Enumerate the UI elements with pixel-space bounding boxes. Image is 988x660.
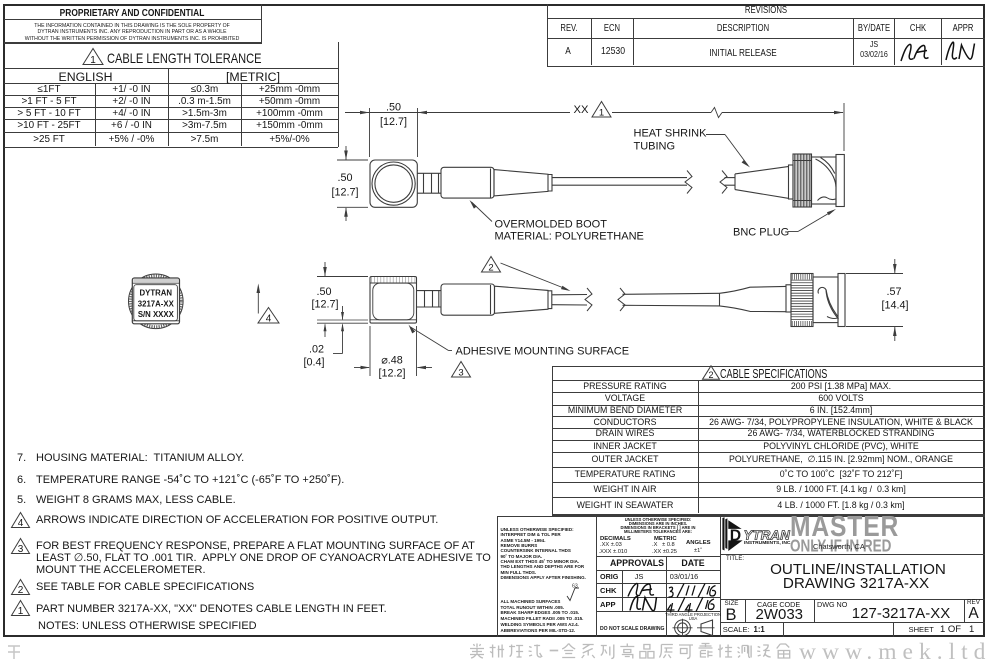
revisions table xyxy=(547,4,548,66)
watermark partial char bottom-left xyxy=(8,646,20,659)
triangle 4 ref with up arrow xyxy=(257,289,259,314)
BNC flange xyxy=(836,155,844,207)
face view hatched circle body xyxy=(129,274,184,329)
svg-text:[12.7]: [12.7] xyxy=(380,116,407,128)
svg-text:HEAT SHRINK: HEAT SHRINK xyxy=(634,128,708,140)
svg-text:XX: XX xyxy=(574,104,589,116)
dim .50 side xyxy=(317,276,368,278)
svg-text:1: 1 xyxy=(599,108,604,119)
svg-text:63: 63 xyxy=(572,584,578,590)
svg-text:.50: .50 xyxy=(316,286,331,298)
boot taper 2 xyxy=(495,286,549,313)
MASTER stamp xyxy=(790,510,899,556)
connector face circle xyxy=(372,162,415,205)
svg-text:3: 3 xyxy=(18,544,24,555)
triangle note 1 xyxy=(12,601,30,618)
svg-text:ADHESIVE MOUNTING SURFACE: ADHESIVE MOUNTING SURFACE xyxy=(456,346,630,358)
svg-text:TUBING: TUBING xyxy=(634,141,676,153)
svg-text:3217A-XX: 3217A-XX xyxy=(138,299,175,308)
svg-text:1: 1 xyxy=(18,606,24,617)
cable break 2 xyxy=(585,288,592,311)
svg-text:.50: .50 xyxy=(386,101,401,113)
dim .57 xyxy=(846,273,903,275)
dim .02 xyxy=(342,306,344,320)
svg-text:Chatsworth, CA: Chatsworth, CA xyxy=(813,542,865,551)
BNC strain relief xyxy=(735,166,789,198)
triangle note 3 xyxy=(12,539,30,556)
sensor square side view (drawing 2) xyxy=(370,277,417,324)
third angle projection symbol xyxy=(675,620,691,636)
svg-text:2: 2 xyxy=(18,585,24,596)
triangle note 2 xyxy=(12,580,30,597)
triangle note 4 xyxy=(12,513,30,530)
dim XX and .50 top: extension lines xyxy=(369,108,371,157)
svg-text:4: 4 xyxy=(266,314,272,325)
cable 2 first segment xyxy=(552,294,587,296)
triangle note 1 (cable length tolerance) xyxy=(83,49,103,67)
svg-text:[0.4]: [0.4] xyxy=(303,357,324,369)
cable 2 second segment xyxy=(623,293,720,294)
notes text xyxy=(17,452,26,464)
svg-text:DYTRAN: DYTRAN xyxy=(140,288,173,297)
triangle 3 ref xyxy=(452,362,471,379)
svg-text:MATERIAL: POLYURETHANE: MATERIAL: POLYURETHANE xyxy=(495,231,644,243)
back ring 2 xyxy=(786,285,791,312)
svg-text:[12.2]: [12.2] xyxy=(378,368,405,380)
svg-text:3: 3 xyxy=(458,368,463,379)
BNC body xyxy=(812,157,837,204)
svg-text:4: 4 xyxy=(18,518,24,529)
face plate xyxy=(132,278,179,324)
surface finish symbol 63 xyxy=(567,588,579,601)
svg-text:D: D xyxy=(730,528,741,545)
svg-text:[14.4]: [14.4] xyxy=(881,300,908,312)
handwritten CHK LA + date xyxy=(628,583,654,596)
leader overmolded boot xyxy=(470,200,477,209)
cable specifications table xyxy=(552,366,553,514)
svg-text:OVERMOLDED BOOT: OVERMOLDED BOOT xyxy=(495,219,608,231)
svg-text:S/N XXXX: S/N XXXX xyxy=(138,310,175,319)
triangle 2 ref with leader xyxy=(482,257,501,274)
svg-text:⌀.48: ⌀.48 xyxy=(381,355,403,367)
connector square body (drawing 1) xyxy=(370,160,417,207)
handwritten CHK initials LA xyxy=(901,44,929,61)
BNC knurled nut xyxy=(793,154,812,207)
watermark chinese characters xyxy=(470,644,484,659)
BNC back ring xyxy=(789,165,794,199)
svg-text:.50: .50 xyxy=(337,172,352,184)
svg-text:INSTRUMENTS, INC.: INSTRUMENTS, INC. xyxy=(744,540,792,546)
plug flange 2 xyxy=(838,274,845,327)
knurl 2 xyxy=(791,274,813,327)
neck ribs 2 xyxy=(417,290,442,292)
svg-text:2: 2 xyxy=(708,370,713,380)
svg-text:[12.7]: [12.7] xyxy=(331,187,358,199)
dim dia .48 xyxy=(369,326,371,376)
dimension line y112.5 xyxy=(345,112,570,114)
cable break xyxy=(685,171,692,194)
handwritten APPR initials LN xyxy=(946,42,975,60)
watermark url text xyxy=(799,639,988,660)
title block xyxy=(497,516,498,637)
overmolded boot xyxy=(441,167,494,198)
cable segment 2 xyxy=(725,177,736,179)
dim .50 left vertical xyxy=(337,159,368,161)
cable length tolerance table xyxy=(338,42,339,147)
svg-text:.02: .02 xyxy=(309,344,324,356)
body 2 xyxy=(813,277,838,323)
svg-text:.57: .57 xyxy=(886,286,901,298)
svg-text:BNC PLUG: BNC PLUG xyxy=(733,227,789,239)
handwritten APP LN + date xyxy=(630,596,657,610)
strain relief 2 xyxy=(720,286,787,311)
bayonet slot 2 xyxy=(818,287,838,319)
svg-text:2: 2 xyxy=(488,263,493,274)
triangle 1 ref on XX dim xyxy=(592,102,611,119)
boot taper xyxy=(494,170,548,196)
BNC bayonet slot xyxy=(816,159,837,187)
triangle 2 ref at spec table header xyxy=(703,366,720,380)
svg-text:1: 1 xyxy=(90,55,96,66)
svg-text:[12.7]: [12.7] xyxy=(311,299,338,311)
boot 2 xyxy=(441,284,495,315)
proprietary and confidential box xyxy=(261,4,262,43)
cable segment xyxy=(552,177,687,179)
Dytran logo xyxy=(722,517,792,551)
leader adhesive mounting surface xyxy=(409,325,416,334)
neck ribs xyxy=(417,172,441,174)
